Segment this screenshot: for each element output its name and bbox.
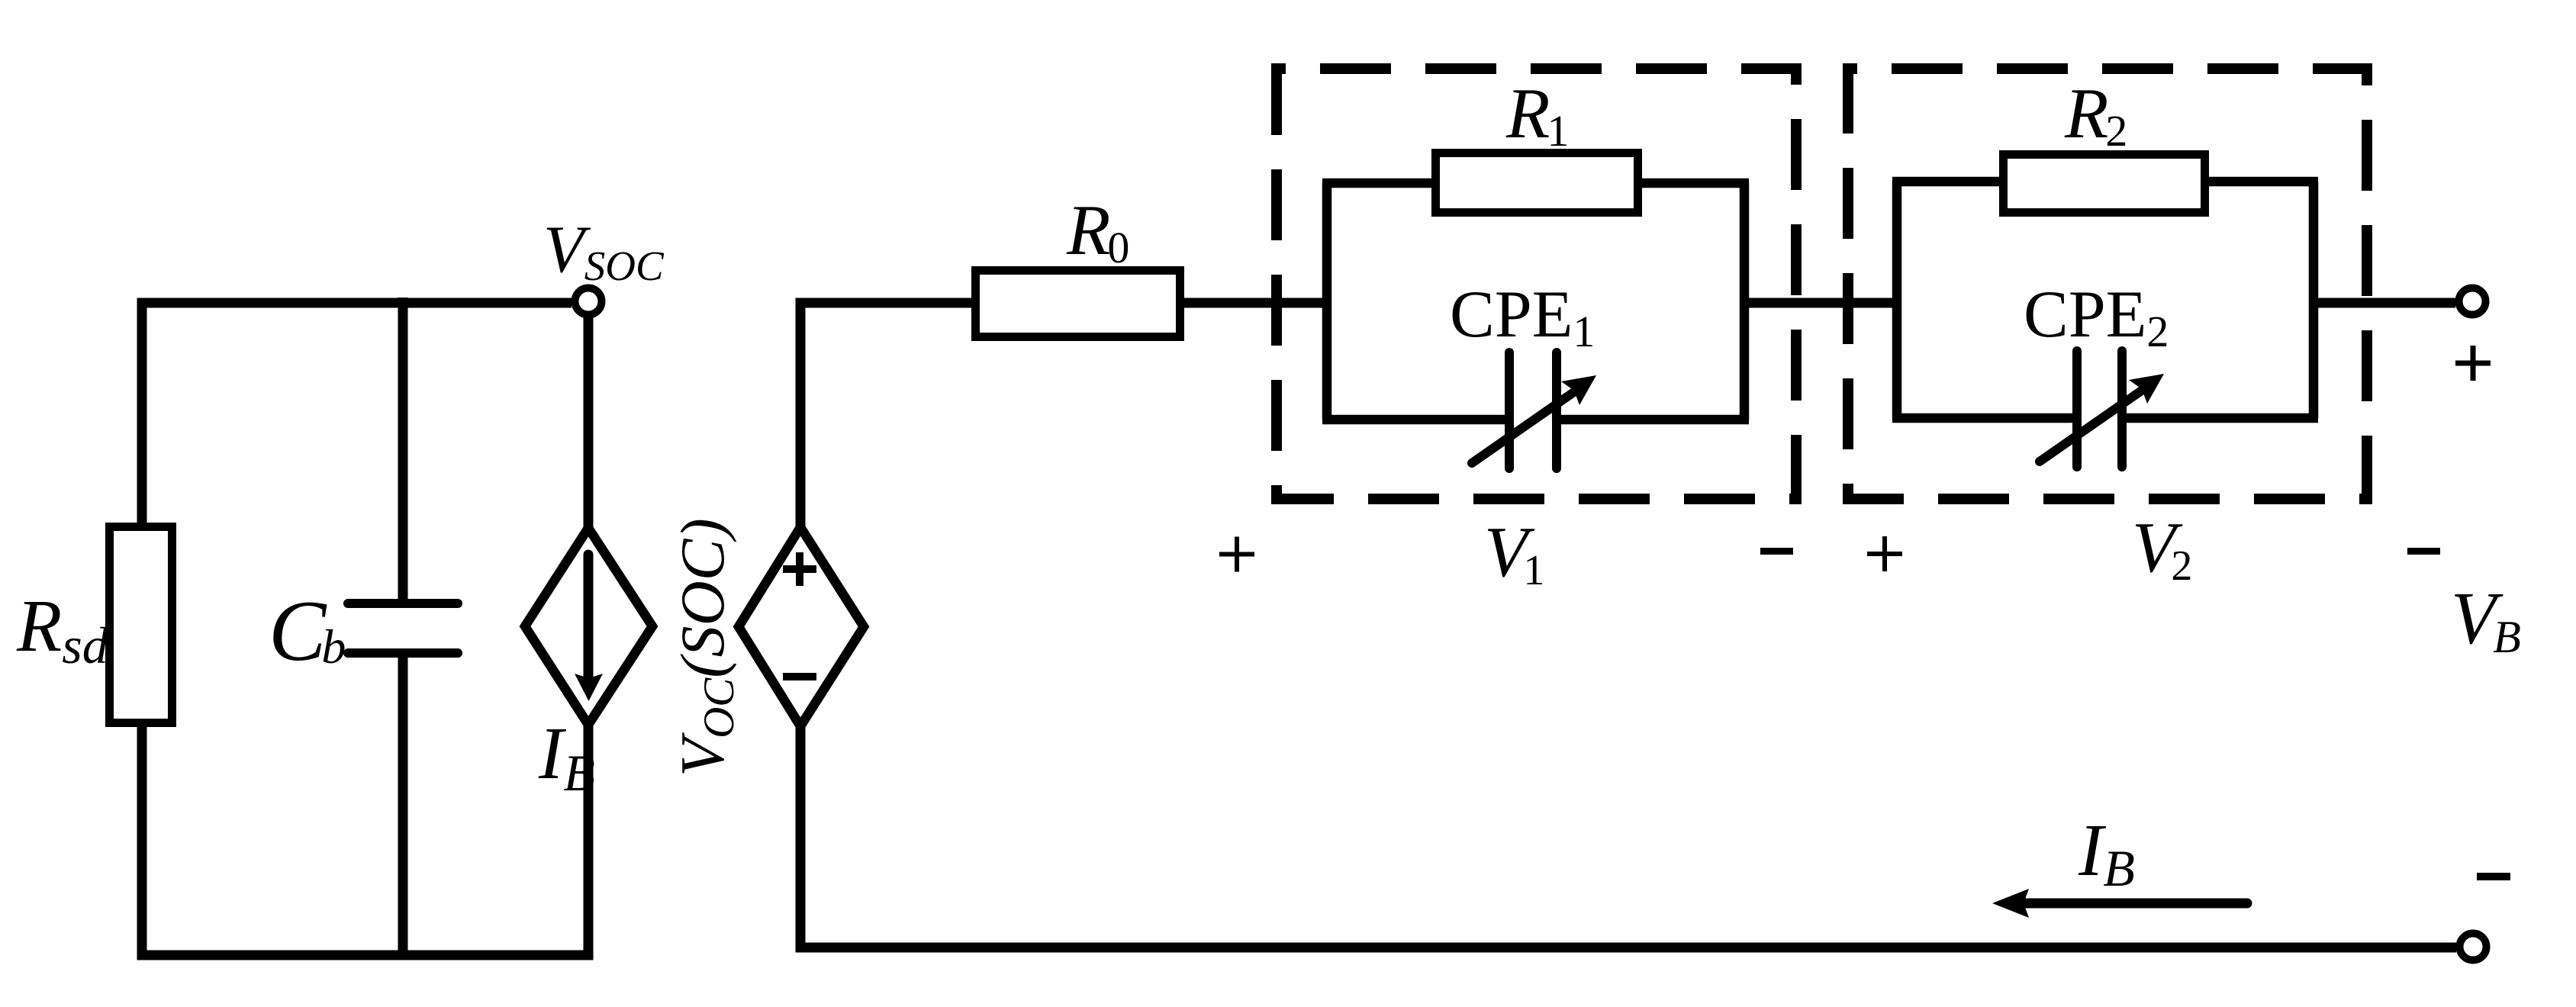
RC1 loop top wires bbox=[1322, 179, 1749, 188]
resistor R1 bbox=[1436, 153, 1638, 213]
label plus VB bbox=[2455, 346, 2491, 381]
wire left vertical upper bbox=[137, 298, 147, 526]
label minus VB bbox=[2477, 873, 2510, 880]
wire Cb vertical upper bbox=[398, 298, 408, 604]
positive terminal circle bbox=[2459, 288, 2486, 315]
RC1 loop right vertical bbox=[1740, 183, 1750, 420]
RC2 loop left vertical bbox=[1892, 182, 1902, 418]
dashed box RC1 bbox=[1277, 69, 1796, 499]
label minus V2 bbox=[2407, 548, 2440, 555]
VOC plus sign bbox=[783, 552, 816, 586]
RC1 loop bottom wires bbox=[1322, 415, 1749, 425]
RC1 loop left vertical bbox=[1322, 183, 1332, 420]
IB bottom arrow shaft bbox=[2024, 899, 2247, 909]
CPE1 left plate bbox=[1505, 352, 1514, 468]
CPE1 arrow bbox=[1472, 391, 1575, 463]
RC2 loop bottom wires bbox=[1892, 413, 2318, 423]
wire Cb vertical lower bbox=[398, 653, 408, 955]
negative terminal circle bbox=[2460, 934, 2487, 960]
resistor Rsd bbox=[110, 527, 172, 723]
CPE1 right plate bbox=[1552, 352, 1561, 468]
wire IB branch vertical top bbox=[584, 317, 594, 529]
wire top-left horizontal bbox=[142, 298, 572, 308]
resistor R2 bbox=[2004, 155, 2205, 213]
wire out to positive terminal bbox=[2309, 298, 2455, 308]
RC2 loop top wires bbox=[1892, 177, 2318, 187]
capacitor Cb top plate bbox=[348, 599, 458, 608]
CPE1 arrowhead bbox=[1561, 375, 1596, 405]
node VSOC terminal circle bbox=[575, 288, 602, 315]
wire VOC bottom to right terminal bbox=[800, 725, 2456, 947]
IB arrow shaft bbox=[584, 555, 594, 683]
VOC minus sign bbox=[783, 673, 816, 680]
CPE2 arrow bbox=[2040, 390, 2143, 462]
resistor R0 bbox=[976, 271, 1180, 337]
wire VOC top corner to R0 bbox=[800, 303, 971, 529]
CPE2 arrowhead bbox=[2129, 374, 2164, 404]
label plus V1 bbox=[1219, 537, 1254, 572]
capacitor Cb bottom plate bbox=[348, 648, 458, 658]
dashed box RC2 bbox=[1848, 69, 2367, 499]
label plus V2 bbox=[1867, 536, 1902, 571]
current source IB diamond bbox=[525, 528, 652, 725]
wire R0 right bbox=[1184, 298, 1331, 308]
IB bottom arrowhead bbox=[1992, 889, 2029, 918]
dependent source VOC diamond bbox=[739, 527, 864, 726]
wire IB branch vertical bottom bbox=[584, 723, 594, 960]
label minus V1 bbox=[1760, 548, 1793, 555]
RC2 loop right vertical bbox=[2309, 182, 2319, 418]
CPE2 right plate bbox=[2117, 351, 2127, 467]
wire between boxes bbox=[1740, 298, 1901, 308]
CPE2 left plate bbox=[2072, 351, 2082, 467]
IB arrowhead bbox=[575, 674, 603, 701]
wire left vertical lower + bottom-left bbox=[142, 725, 594, 955]
